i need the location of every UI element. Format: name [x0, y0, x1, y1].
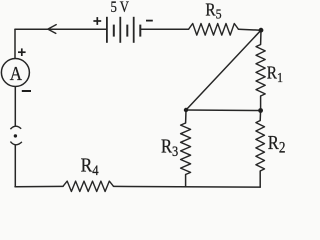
current arrow on top wire: [48, 25, 56, 34]
node mid-right (R2 top): [258, 108, 263, 113]
resistor R2: [256, 121, 265, 172]
battery + polarity mark: [93, 17, 101, 25]
wire bottom right of R4: [114, 185, 261, 188]
resistor R5: [189, 24, 239, 36]
plug key dot: [14, 134, 17, 137]
wire plug key to bottom-left corner: [14, 145, 16, 186]
node top-right corner: [259, 28, 264, 33]
resistor R3: [181, 123, 191, 175]
ammeter - mark: [22, 90, 31, 92]
resistor R4: [63, 181, 114, 191]
wire diagonal: [186, 30, 261, 110]
wire battery to R5: [140, 28, 188, 30]
svg-text:5 V: 5 V: [111, 0, 130, 16]
wire R2 bottom stub: [259, 171, 261, 187]
battery B1 (3 cells, 5 V): [107, 17, 140, 43]
wire R5 to top-right corner: [239, 28, 262, 31]
paper background: [0, 0, 287, 194]
wire ammeter to plug key: [14, 87, 16, 126]
wire R3 top stub: [185, 110, 187, 123]
ammeter + mark: [18, 48, 26, 56]
resistor R1: [256, 45, 265, 97]
wire R2 top stub: [259, 111, 261, 121]
wire middle horizontal node-to-node: [186, 109, 261, 112]
wire R1 bottom stub: [260, 96, 262, 111]
node mid-left (R3 top): [184, 108, 188, 112]
wire top-left horizontal: [15, 28, 107, 30]
wire R1 top stub: [260, 30, 262, 44]
plug key lower arc: [10, 142, 22, 145]
svg-text:A: A: [10, 63, 23, 86]
battery - polarity mark: [146, 20, 153, 22]
plug key upper arc: [10, 126, 21, 129]
wire R3 bottom stub: [185, 175, 187, 187]
wire left vertical upper: [14, 29, 16, 58]
wire bottom left of R4: [15, 185, 63, 187]
ammeter A1 circle: [1, 59, 29, 87]
